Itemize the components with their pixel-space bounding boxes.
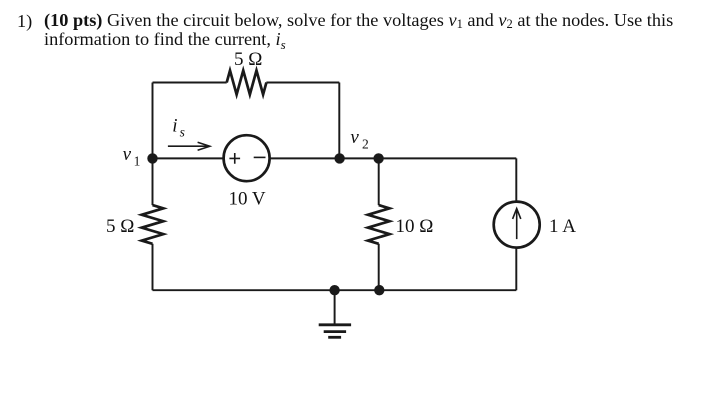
svg-text:v: v xyxy=(123,144,132,165)
svg-text:v: v xyxy=(350,127,359,148)
svg-text:5 Ω: 5 Ω xyxy=(234,49,262,70)
svg-text:10 V: 10 V xyxy=(229,189,266,210)
svg-text:1: 1 xyxy=(134,154,141,169)
svg-text:s: s xyxy=(180,124,185,139)
svg-text:2: 2 xyxy=(362,136,369,151)
svg-text:10 Ω: 10 Ω xyxy=(396,216,434,237)
svg-text:5 Ω: 5 Ω xyxy=(106,216,134,237)
svg-text:i: i xyxy=(172,116,177,137)
svg-text:1 A: 1 A xyxy=(549,216,576,237)
